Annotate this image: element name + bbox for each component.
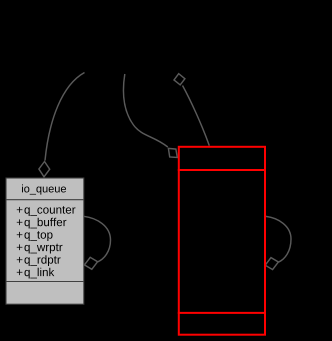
wire: edge from top-right diamond down to top of red node [183, 86, 210, 146]
node: aggregation diamond at top of io_queue [39, 162, 50, 177]
node: self-loop diamond on io_queue right edge [84, 257, 97, 269]
class name io_queue [21, 184, 24, 192]
node: io_queue class box [6, 178, 84, 304]
wire: edge from top node to io_queue diamond [45, 73, 85, 161]
node: aggregation diamond at left of red node [168, 148, 177, 157]
member +q_top [17, 232, 23, 238]
wire: io_queue self-loop (q_link) [84, 216, 111, 262]
node: aggregation diamond below top-right invisible node [174, 74, 185, 85]
wire: edge from top node curving to left side of red node [123, 74, 167, 147]
member +q_link [17, 269, 23, 275]
member +q_wrptr [17, 244, 23, 250]
wire: red node self-loop [266, 216, 291, 262]
member +q_buffer [17, 219, 23, 225]
node: highlighted (red) class box, black fill [178, 147, 266, 335]
member +q_rdptr [17, 257, 23, 263]
node: self-loop diamond on red node right edge [265, 258, 278, 270]
member +q_counter [17, 207, 23, 213]
